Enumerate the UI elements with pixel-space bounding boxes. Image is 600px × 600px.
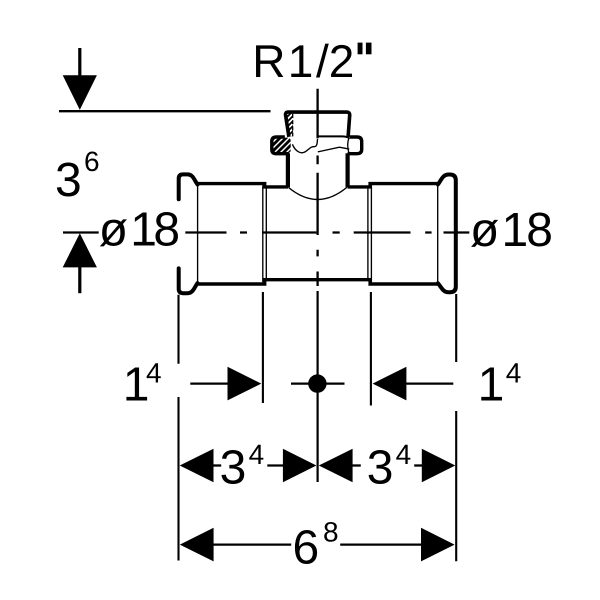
row2 arrow right (at right flare ext) bbox=[422, 449, 456, 483]
right step lines bbox=[368, 185, 372, 282]
row2 stub d bbox=[414, 464, 422, 466]
left flare bottom lip bbox=[179, 268, 198, 293]
svg-text:3: 3 bbox=[220, 441, 247, 494]
row3 right arrow bbox=[421, 528, 455, 562]
break squiggle bbox=[292, 139, 317, 153]
row1 arrow right bbox=[228, 367, 262, 401]
dim 3.6 stem top bbox=[78, 48, 81, 76]
extension line right step bbox=[370, 292, 372, 406]
branch dome arc bbox=[288, 187, 346, 199]
fitting outline bottom bbox=[196, 280, 438, 284]
row2 stub a bbox=[213, 464, 221, 466]
thread hatch boundary line bbox=[292, 114, 294, 136]
svg-text:8: 8 bbox=[153, 204, 180, 257]
svg-text:1: 1 bbox=[288, 35, 314, 87]
row2 stub b bbox=[267, 464, 283, 466]
right flare capsule bbox=[438, 175, 456, 293]
dim 3.6 arrow up bbox=[63, 233, 97, 267]
row2 left arrow bbox=[180, 449, 214, 483]
hex nut left cap hatching bbox=[256, 134, 308, 156]
svg-text:4: 4 bbox=[506, 357, 522, 388]
branch neck bbox=[288, 153, 348, 187]
hex top edge right half bbox=[318, 136, 349, 137]
svg-text:1: 1 bbox=[502, 204, 529, 257]
svg-text:ø: ø bbox=[470, 204, 499, 257]
extension line right flare bbox=[455, 294, 457, 561]
top extension line (thread top level) bbox=[59, 110, 271, 112]
left step lines bbox=[263, 185, 267, 282]
svg-text:4: 4 bbox=[249, 439, 265, 470]
row1 center cross line bbox=[291, 382, 345, 384]
hex bottom chamfer line bbox=[318, 147, 349, 152]
left flare top lip bbox=[179, 174, 198, 199]
svg-text:1: 1 bbox=[478, 359, 505, 412]
hex nut right cap bbox=[348, 137, 362, 154]
row2 stub c bbox=[352, 464, 361, 466]
horizontal centerline (dash-dot through fitting axis) bbox=[63, 231, 469, 233]
row3 dim line left bbox=[213, 543, 291, 545]
svg-text:6: 6 bbox=[293, 521, 320, 574]
hex nut left cap (sectioned) bbox=[272, 137, 289, 154]
center extension line below fitting (through dot to row2) bbox=[317, 291, 319, 482]
svg-text:3: 3 bbox=[367, 441, 394, 494]
svg-text:ø: ø bbox=[99, 204, 128, 257]
svg-text:/2: /2 bbox=[316, 35, 354, 87]
row3 left arrow bbox=[180, 528, 214, 562]
dim 3.6 stem bottom bbox=[78, 267, 81, 293]
row2 arrow left-pointing at center (right dim) bbox=[319, 449, 353, 483]
svg-text:3: 3 bbox=[55, 154, 82, 207]
svg-text:8: 8 bbox=[526, 204, 553, 257]
svg-text:4: 4 bbox=[146, 357, 162, 388]
extension line left step bbox=[262, 292, 264, 403]
hex face divider arc bbox=[348, 138, 349, 152]
row1 dim line left (1^4) bbox=[190, 382, 229, 384]
left socket mouth line bbox=[197, 185, 199, 282]
center dot bbox=[308, 374, 326, 392]
row1 dim line right bbox=[406, 382, 454, 384]
svg-text:R: R bbox=[252, 35, 285, 87]
right socket mouth line bbox=[437, 185, 439, 281]
row1 arrow left (right side) bbox=[373, 367, 407, 401]
svg-text:8: 8 bbox=[323, 517, 339, 548]
thread R1/2 outline bbox=[286, 112, 350, 137]
fitting outline top bbox=[196, 184, 438, 187]
dim 3.6 arrow down bbox=[63, 75, 97, 110]
row3 dim line right bbox=[340, 543, 421, 545]
row2 arrow right-pointing at center bbox=[283, 449, 317, 483]
thread hatching bbox=[262, 110, 319, 137]
svg-text:6: 6 bbox=[84, 146, 100, 177]
vertical centerline (dash-dot through branch axis) bbox=[316, 89, 318, 286]
extension line left flare bbox=[177, 295, 179, 561]
svg-text:4: 4 bbox=[396, 439, 412, 470]
